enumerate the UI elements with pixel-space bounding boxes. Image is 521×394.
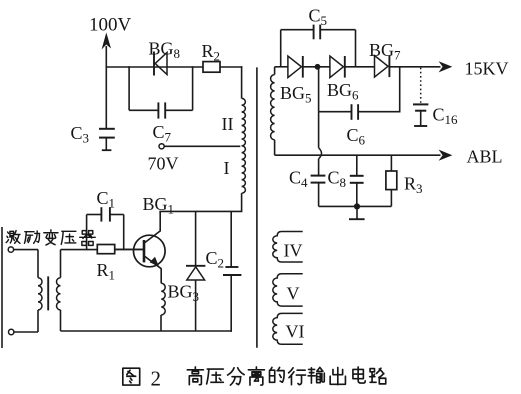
capacitor C1: [100, 207, 102, 221]
svg-text:2: 2: [151, 367, 162, 391]
ABL output arrow: [439, 150, 453, 161]
winding I: [242, 146, 246, 193]
inductor BG1 emitter coil: [160, 269, 162, 284]
svg-text:100V: 100V: [89, 15, 132, 36]
wire bottom rail: [61, 330, 233, 332]
wire BG6 to BG7: [345, 66, 375, 68]
wire C7 branch right: [192, 66, 194, 110]
svg-text:C1: C1: [97, 188, 116, 211]
wire C5 left: [280, 30, 282, 67]
wire top rail 100V to R2: [106, 66, 204, 68]
wire C6 bottom right: [358, 111, 400, 113]
wire C5 top: [281, 29, 314, 31]
svg-text:C3: C3: [71, 123, 90, 146]
capacitor C6: [351, 104, 353, 120]
svg-text:I: I: [224, 158, 230, 178]
page edge line: [1, 227, 3, 348]
wire C6 right up: [399, 67, 401, 113]
svg-text:VI: VI: [286, 322, 305, 342]
wire junction to hop: [318, 112, 320, 148]
wire C5 right: [355, 30, 357, 67]
driver transformer secondary: [60, 250, 62, 278]
wire C1 left: [86, 215, 88, 251]
svg-text:C7: C7: [153, 122, 172, 145]
winding VI: [273, 313, 303, 344]
svg-text:II: II: [222, 114, 234, 134]
svg-text:70V: 70V: [148, 154, 179, 174]
terminal input top: [8, 247, 13, 252]
node 100V supply arrow: [105, 46, 107, 68]
svg-text:BG5: BG5: [280, 83, 312, 106]
wire dotted lead to C16: [420, 68, 422, 104]
wire HV diode row: [275, 66, 288, 68]
wire hop over ABL: [319, 148, 322, 159]
wire R1 to base: [115, 248, 144, 250]
winding II: [241, 97, 243, 100]
node junction dot: [315, 64, 321, 70]
wire 100V down to C3: [105, 67, 107, 128]
svg-text:C2: C2: [206, 248, 225, 271]
wire BG5 to junction: [303, 66, 330, 68]
node ground junction dot: [354, 203, 360, 209]
wire collector rail: [159, 210, 242, 212]
diode BG3: [186, 265, 205, 267]
wire C7 branch left: [128, 66, 130, 110]
wire C6 bottom left: [319, 111, 352, 113]
ground: [356, 206, 358, 218]
svg-text:ABL: ABL: [467, 147, 503, 167]
svg-text:R3: R3: [404, 174, 423, 197]
capacitor C3: [99, 128, 115, 130]
driver transformer core: [47, 276, 49, 310]
svg-text:BG7: BG7: [369, 40, 401, 63]
resistor R3: [386, 171, 397, 190]
node 70V tap: [159, 144, 164, 149]
wire junction down to C6: [318, 67, 320, 112]
wire corner down to winding II: [241, 66, 243, 98]
diode BG5: [288, 56, 302, 78]
flyback core: [256, 67, 258, 347]
wire C2 branch top: [230, 211, 232, 266]
winding III: [274, 67, 276, 75]
svg-text:15KV: 15KV: [465, 59, 509, 79]
wire C1 top: [87, 214, 102, 216]
wire R2 to transformer corner: [220, 66, 242, 68]
diode BG6: [330, 56, 344, 78]
wire C8 top: [356, 155, 358, 175]
capacitor C4: [311, 175, 326, 177]
capacitor C5: [313, 25, 315, 40]
svg-text:BG8: BG8: [149, 39, 181, 62]
transistor BG1: [134, 235, 166, 267]
diode BG8: [153, 52, 155, 76]
diode BG7: [375, 56, 389, 78]
winding IV: [273, 232, 303, 263]
svg-text:C8: C8: [328, 168, 347, 191]
wire BG7 to 15KV arrow: [389, 66, 440, 68]
svg-text:BG3: BG3: [168, 282, 200, 305]
svg-text:C5: C5: [309, 6, 328, 29]
svg-text:C16: C16: [433, 105, 459, 128]
driver transformer primary: [37, 250, 39, 278]
wire C1 right: [123, 215, 125, 251]
15KV output arrow: [439, 61, 453, 72]
capacitor C2: [225, 266, 238, 268]
terminal input bottom: [9, 329, 14, 334]
capacitor C7: [157, 102, 159, 118]
resistor R2: [203, 62, 220, 73]
wire C7 branch bottom: [129, 109, 158, 111]
svg-text:C6: C6: [347, 125, 366, 148]
text 激励变压器 label: [6, 231, 20, 244]
svg-text:BG1: BG1: [143, 194, 175, 217]
svg-text:IV: IV: [284, 241, 303, 261]
wire ground rail: [319, 205, 392, 207]
resistor R1: [97, 245, 114, 254]
svg-text:R1: R1: [97, 260, 116, 283]
svg-text:BG6: BG6: [327, 80, 359, 103]
wire BG3 branch top: [195, 211, 197, 265]
winding V: [273, 274, 303, 306]
capacitor C16: [413, 103, 428, 105]
svg-text:R2: R2: [202, 41, 221, 64]
svg-text:V: V: [287, 284, 300, 304]
wire hop to C4: [318, 159, 320, 176]
text caption 图2 高压分离的行输出电路: [123, 368, 140, 385]
capacitor C8: [350, 175, 364, 177]
wire R3 top: [390, 155, 392, 171]
wire ABL line: [275, 154, 441, 156]
svg-text:C4: C4: [289, 168, 308, 191]
